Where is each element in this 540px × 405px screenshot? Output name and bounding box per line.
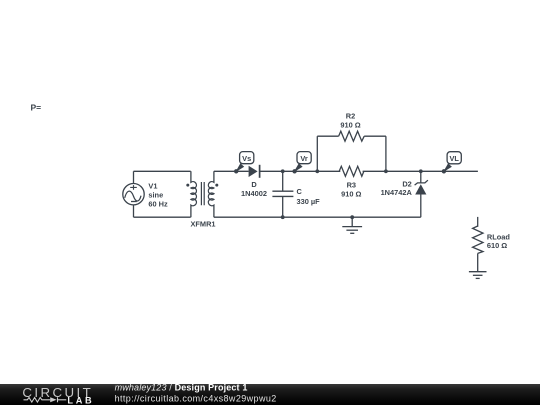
probe Vs xyxy=(234,152,254,174)
svg-text:P=: P= xyxy=(31,103,42,113)
core lines xyxy=(201,182,204,205)
node junction R2 right xyxy=(384,169,388,173)
svg-text:D: D xyxy=(251,180,257,189)
footer text xyxy=(115,383,277,404)
resistor R3 xyxy=(339,166,364,199)
diode D 1N4002 xyxy=(241,165,267,198)
wire R2 branch top right xyxy=(364,135,386,137)
wire R2 branch right vertical xyxy=(385,136,387,171)
wire V1 top lead xyxy=(133,171,135,183)
zener diode D2 1N4742A xyxy=(381,169,428,217)
V1 labels xyxy=(148,181,168,208)
wire secondary bottom rail xyxy=(214,216,421,218)
svg-text:910 Ω: 910 Ω xyxy=(341,190,361,199)
svg-text:1N4002: 1N4002 xyxy=(241,189,267,198)
svg-text:910 Ω: 910 Ω xyxy=(340,121,360,130)
node junction R2 left xyxy=(315,169,319,173)
wire primary bottom xyxy=(134,216,191,218)
svg-text:1N4742A: 1N4742A xyxy=(381,188,413,197)
primary winding xyxy=(191,171,197,217)
wire R2 branch left vertical xyxy=(316,136,318,171)
svg-text:R3: R3 xyxy=(347,181,356,190)
svg-text:610 Ω: 610 Ω xyxy=(487,241,507,250)
ground RLoad xyxy=(469,272,487,279)
phase dot primary xyxy=(186,184,189,187)
wire R2 branch top left xyxy=(317,135,338,137)
wire secondary top to diode xyxy=(214,170,249,172)
svg-text:XFMR1: XFMR1 xyxy=(190,220,215,229)
svg-text:LAB: LAB xyxy=(67,396,94,405)
ground main xyxy=(342,215,362,233)
svg-text:R2: R2 xyxy=(346,112,355,121)
phase dot secondary xyxy=(215,184,218,187)
resistor RLoad (floating) xyxy=(473,217,511,272)
svg-text:60 Hz: 60 Hz xyxy=(148,199,168,208)
svg-text:mwhaley123 / Design Project 1: mwhaley123 / Design Project 1 xyxy=(115,383,248,393)
transformer XFMR1 xyxy=(186,171,218,228)
svg-text:VL: VL xyxy=(449,154,459,163)
resistor R2 xyxy=(339,112,365,142)
svg-text:330 µF: 330 µF xyxy=(297,197,321,206)
wire main top rail xyxy=(260,170,478,172)
svg-text:C: C xyxy=(297,187,303,196)
voltage source V1 xyxy=(123,184,144,205)
svg-text:Vs: Vs xyxy=(242,154,251,163)
svg-text:V1: V1 xyxy=(148,181,157,190)
secondary winding xyxy=(208,171,214,217)
probe Vr xyxy=(292,152,311,174)
wire V1 bottom lead xyxy=(133,205,135,217)
probe VL xyxy=(442,152,462,174)
wire primary top xyxy=(134,170,191,172)
svg-text:sine: sine xyxy=(148,190,163,199)
capacitor C xyxy=(272,169,320,219)
CircuitLab logo xyxy=(22,385,94,405)
svg-text:http://circuitlab.com/c4xs8w29: http://circuitlab.com/c4xs8w29wpwu2 xyxy=(115,394,277,404)
svg-text:Vr: Vr xyxy=(300,154,308,163)
